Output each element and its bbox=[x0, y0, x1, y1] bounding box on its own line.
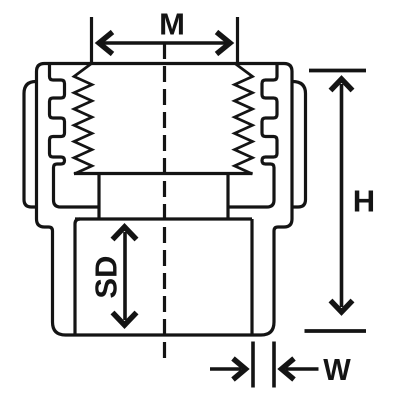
M dimension right extension line bbox=[236, 17, 239, 63]
M dimension left arrowhead (chevron) bbox=[99, 32, 113, 54]
W dimension right extension line bbox=[272, 342, 276, 388]
right step vertical below threads bbox=[226, 174, 229, 220]
SD dimension line bbox=[123, 232, 127, 320]
M dimension left extension line bbox=[90, 17, 93, 63]
SD down arrowhead (chevron) bbox=[113, 313, 137, 326]
fitting body outline (nut top, sides, lower spigot walls, bottom face) bbox=[37, 64, 293, 336]
svg-text:M: M bbox=[159, 7, 185, 42]
M dimension right arrowhead (chevron) bbox=[217, 32, 231, 54]
right inner bore wall bbox=[250, 219, 253, 335]
W left arrowhead (chevron pointing right) bbox=[233, 359, 246, 380]
W right arrowhead (chevron pointing left) bbox=[282, 359, 295, 380]
M dimension line bbox=[103, 41, 227, 44]
right back edge of nut bbox=[293, 82, 306, 208]
H dimension bottom tick bbox=[305, 329, 367, 333]
left step vertical below threads bbox=[97, 174, 100, 220]
SD up arrowhead (chevron) bbox=[113, 227, 137, 240]
W right arrow shaft bbox=[286, 367, 319, 371]
svg-text:H: H bbox=[353, 184, 375, 219]
left grip profile (wavy line) with bottom face segment bbox=[50, 64, 100, 207]
dashed centerline bbox=[163, 43, 166, 359]
left back edge of nut bbox=[24, 82, 37, 208]
W dimension left extension line bbox=[251, 342, 255, 388]
svg-text:W: W bbox=[323, 353, 351, 387]
left internal thread zigzag bbox=[74, 64, 92, 175]
svg-text:SD: SD bbox=[88, 256, 123, 299]
thread bottom line bbox=[74, 172, 253, 175]
H dimension up arrowhead (chevron) bbox=[331, 79, 353, 91]
H dimension down arrowhead (chevron) bbox=[331, 301, 353, 313]
W left arrow shaft bbox=[210, 367, 241, 371]
right internal thread zigzag bbox=[235, 64, 253, 175]
left inner bore wall bbox=[75, 219, 80, 335]
H dimension line bbox=[340, 84, 344, 307]
right grip profile (wavy line) with bottom face segment bbox=[228, 64, 277, 207]
internal shoulder line bbox=[75, 217, 252, 220]
H dimension top tick bbox=[309, 69, 366, 73]
